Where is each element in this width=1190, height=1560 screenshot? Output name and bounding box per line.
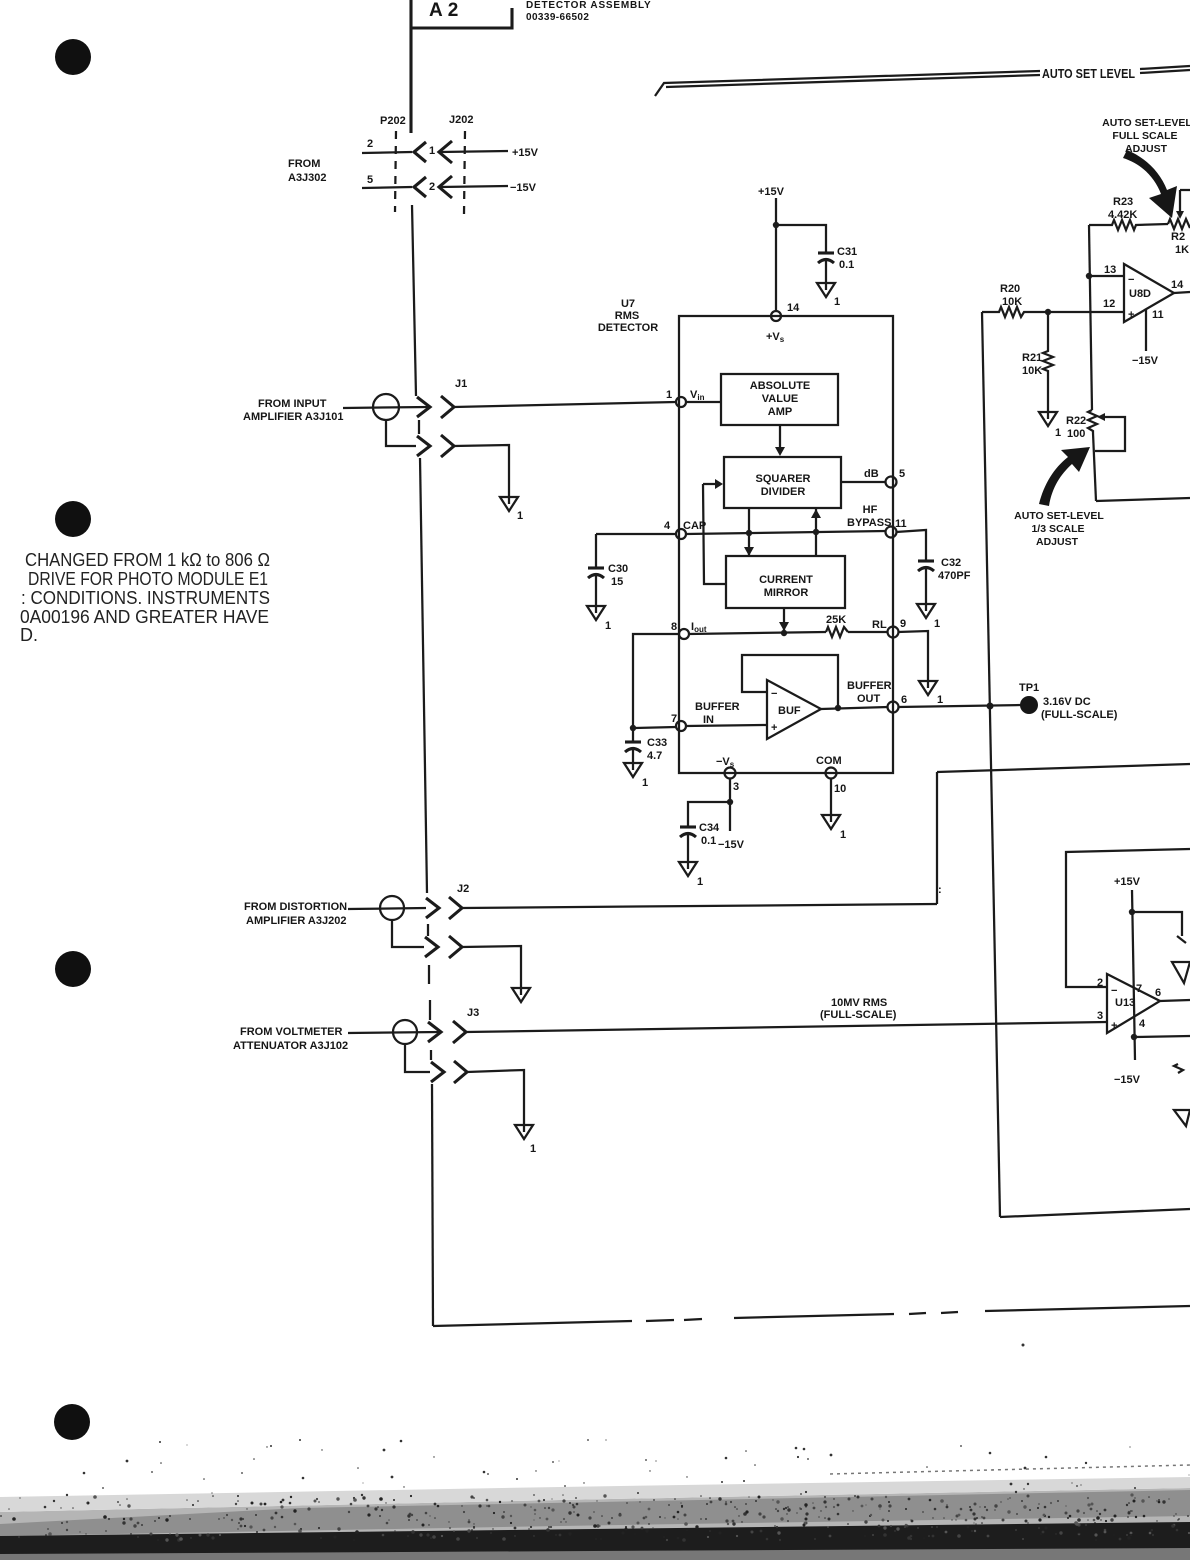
svg-text:OUT: OUT	[857, 693, 881, 705]
svg-text:+Vs: +Vs	[766, 331, 785, 344]
resistor 25K	[826, 627, 848, 637]
ground C31	[817, 283, 835, 297]
svg-text:00339-66502: 00339-66502	[526, 12, 589, 23]
capacitor C30	[588, 566, 604, 569]
R22 wiper loop	[1097, 413, 1105, 421]
connector pin arrow J3 row2	[431, 1062, 444, 1082]
wire iout bus	[689, 632, 826, 634]
punch hole dot 4	[54, 1404, 90, 1440]
svg-text:A3J302: A3J302	[288, 172, 327, 184]
wire +15V	[440, 151, 508, 152]
wire bottom right corner	[1000, 1209, 1190, 1217]
connector J202-2 arrow	[439, 176, 452, 198]
wire J2 shield tail	[392, 920, 424, 947]
svg-text:DETECTOR ASSEMBLY: DETECTOR ASSEMBLY	[526, 0, 651, 11]
J202 dashed mating line	[464, 131, 465, 214]
svg-text:C31: C31	[837, 246, 857, 258]
punch hole dot 3	[55, 951, 91, 987]
P202 dashed mating line	[395, 131, 396, 212]
svg-text:1: 1	[934, 618, 940, 630]
svg-text:6: 6	[901, 694, 907, 706]
svg-text:AMPLIFIER A3J202: AMPLIFIER A3J202	[246, 915, 346, 927]
punch hole dot 1	[55, 39, 91, 75]
wire J3 signal in	[348, 1032, 440, 1033]
svg-text:dB: dB	[864, 468, 879, 480]
svg-text:BYPASS: BYPASS	[847, 517, 891, 529]
svg-text:DIVIDER: DIVIDER	[761, 486, 806, 498]
svg-text:5: 5	[367, 174, 373, 186]
svg-text:3: 3	[733, 781, 739, 793]
ground C32	[917, 604, 935, 618]
connector J202-1 arrow	[439, 141, 452, 163]
svg-text:Vin: Vin	[690, 389, 705, 402]
wire R23 node vertical	[1089, 225, 1092, 410]
wire U8 output	[1174, 292, 1190, 293]
svg-text:CAP: CAP	[683, 520, 706, 532]
svg-text:1K: 1K	[1175, 244, 1189, 256]
svg-text:1: 1	[834, 296, 840, 308]
svg-text:470PF: 470PF	[938, 570, 971, 582]
IC U7 outline box	[679, 316, 893, 773]
wire J1 to U7 pin1	[454, 402, 676, 407]
wire 25K to RL	[848, 631, 888, 633]
svg-text:4: 4	[664, 520, 671, 532]
wire pin4 bus	[686, 531, 886, 534]
svg-text:(FULL-SCALE): (FULL-SCALE)	[820, 1009, 897, 1021]
svg-text:C33: C33	[647, 737, 667, 749]
svg-text:CURRENT: CURRENT	[759, 574, 813, 586]
wire dB to pin5	[841, 481, 886, 483]
svg-text:15: 15	[611, 576, 623, 588]
svg-text:+15V: +15V	[758, 186, 785, 198]
wire pin3 to -15V	[729, 778, 731, 831]
op-amp U13	[1107, 974, 1160, 1033]
connector pin arrow J2 row2	[425, 937, 438, 957]
svg-text:J2: J2	[457, 883, 469, 895]
svg-text:(FULL-SCALE): (FULL-SCALE)	[1041, 709, 1118, 721]
svg-text:6: 6	[1155, 987, 1161, 999]
ground COM	[822, 815, 840, 829]
wire pin6 to TP1	[898, 705, 1021, 707]
wire J1 shield to ground	[454, 445, 509, 497]
svg-text:VALUE: VALUE	[762, 393, 798, 405]
ground RL	[919, 681, 937, 695]
board boundary dashed vertical line	[412, 205, 416, 396]
svg-text:BUFFER: BUFFER	[847, 680, 892, 692]
svg-text:1: 1	[697, 876, 703, 888]
buffer feedback loop	[742, 655, 838, 707]
capacitor C32	[918, 559, 934, 562]
svg-text:1: 1	[530, 1143, 536, 1155]
board boundary dashed bottom line	[433, 1321, 632, 1326]
svg-text:FULL SCALE: FULL SCALE	[1112, 130, 1177, 142]
wire -15V	[440, 186, 508, 187]
wire J2 signal in	[348, 908, 426, 909]
svg-text:8: 8	[671, 621, 677, 633]
svg-text:COM: COM	[816, 755, 842, 767]
adjust arrow full scale	[1123, 150, 1177, 218]
connector pin arrow J1 row2	[417, 436, 430, 456]
svg-text:AUTO SET-LEVEL: AUTO SET-LEVEL	[1014, 510, 1104, 522]
svg-text:1: 1	[840, 829, 846, 841]
svg-text:Iout: Iout	[691, 621, 707, 634]
svg-text:D.: D.	[20, 625, 38, 645]
svg-text:1: 1	[605, 620, 611, 632]
svg-text:R21: R21	[1022, 352, 1042, 364]
svg-text:10K: 10K	[1022, 365, 1042, 377]
svg-text:1: 1	[937, 694, 943, 706]
svg-text::: :	[938, 884, 942, 896]
wire R22 to bottom	[1093, 433, 1096, 501]
svg-text:2: 2	[429, 181, 435, 193]
connector pin arrow J2 row1	[426, 898, 439, 918]
wire U13 pin7 branch	[1132, 912, 1182, 936]
svg-text:J1: J1	[455, 378, 467, 390]
ground J2 shield	[512, 988, 530, 1002]
svg-text:SQUARER: SQUARER	[755, 473, 810, 485]
svg-text:14: 14	[787, 302, 800, 314]
coax shield circle J1	[373, 394, 399, 420]
svg-text:0A00196 AND GREATER HAVE: 0A00196 AND GREATER HAVE	[20, 607, 269, 627]
junction feedback node	[987, 703, 994, 710]
op-amp U8D	[1124, 264, 1174, 322]
svg-text:10: 10	[834, 783, 846, 795]
wire C30 to ground	[595, 576, 597, 606]
connector J3 chevron row1	[453, 1021, 466, 1043]
U13 feedback wire	[1066, 849, 1190, 987]
coax shield circle J2	[380, 896, 404, 920]
svg-text:: CONDITIONS. INSTRUMENTS: : CONDITIONS. INSTRUMENTS	[21, 588, 270, 608]
svg-text:P202: P202	[380, 115, 406, 127]
svg-text:FROM DISTORTION: FROM DISTORTION	[244, 901, 347, 913]
resistor clipped right	[1174, 1064, 1183, 1073]
svg-text:−15V: −15V	[1114, 1074, 1141, 1086]
wire J3 shield to ground	[467, 1070, 524, 1125]
svg-text:RMS: RMS	[615, 310, 639, 322]
svg-text:−15V: −15V	[718, 839, 745, 851]
pin 5	[886, 477, 897, 488]
svg-text:10K: 10K	[1002, 296, 1022, 308]
adjust arrow 1/3 scale	[1039, 447, 1090, 506]
svg-text:CHANGED FROM 1 kΩ to 806 Ω: CHANGED FROM 1 kΩ to 806 Ω	[25, 550, 270, 570]
svg-text:ATTENUATOR A3J102: ATTENUATOR A3J102	[233, 1040, 348, 1052]
pin 6	[888, 702, 899, 713]
svg-text:RL: RL	[872, 619, 887, 631]
wire P202 pin1 left	[362, 152, 412, 153]
connector J1 chevron row1	[441, 396, 454, 418]
svg-text:J202: J202	[449, 114, 473, 126]
wire abs amp to squarer	[779, 425, 781, 448]
svg-text:C30: C30	[608, 563, 628, 575]
svg-text:0.1: 0.1	[839, 259, 854, 271]
svg-text:DRIVE FOR PHOTO MODULE E1: DRIVE FOR PHOTO MODULE E1	[28, 569, 268, 589]
svg-text:1: 1	[1055, 427, 1061, 439]
stray dot	[1022, 1344, 1025, 1347]
svg-text:IN: IN	[703, 714, 714, 726]
svg-text:−15V: −15V	[1132, 355, 1159, 367]
capacitor C31	[818, 251, 834, 254]
svg-text:FROM: FROM	[288, 158, 320, 170]
wire current mirror to iout	[783, 608, 785, 631]
svg-text:0.1: 0.1	[701, 835, 716, 847]
svg-text:AMPLIFIER A3J101: AMPLIFIER A3J101	[243, 411, 343, 423]
ground clipped right 2	[1174, 1110, 1190, 1126]
connector pin P202-1 chevron	[414, 142, 426, 162]
svg-text:J3: J3	[467, 1007, 479, 1019]
svg-text:1: 1	[429, 145, 435, 157]
wire buf out	[821, 707, 888, 709]
wire J2 route right	[937, 764, 1190, 772]
capacitor C33	[625, 740, 641, 743]
svg-text:ADJUST: ADJUST	[1036, 536, 1079, 548]
svg-text:FROM INPUT: FROM INPUT	[258, 398, 327, 410]
svg-text:3.16V DC: 3.16V DC	[1043, 696, 1091, 708]
svg-text:−: −	[1111, 985, 1117, 997]
svg-text:4: 4	[1139, 1018, 1146, 1030]
ground R21	[1039, 412, 1057, 426]
svg-text:HF: HF	[863, 504, 878, 516]
wire pin10 to ground	[830, 778, 832, 815]
svg-text:C34: C34	[699, 822, 720, 834]
AUTO SET LEVEL header rule	[655, 71, 1040, 96]
svg-text:BUF: BUF	[778, 705, 801, 717]
ground C34	[679, 862, 697, 876]
svg-text:ABSOLUTE: ABSOLUTE	[750, 380, 811, 392]
svg-text:+: +	[1111, 1020, 1117, 1032]
wire R20 to U8 pin12	[1048, 311, 1124, 313]
wire J1 shield tail	[386, 420, 416, 446]
svg-text:−15V: −15V	[510, 182, 537, 194]
svg-text:10MV RMS: 10MV RMS	[831, 997, 887, 1009]
svg-text:R2: R2	[1171, 231, 1185, 243]
wire C34 branch	[688, 802, 730, 826]
connector pin arrow J1 row1	[417, 397, 430, 417]
ground J3 shield	[515, 1125, 533, 1139]
svg-text:1: 1	[666, 389, 672, 401]
svg-text:9: 9	[900, 618, 906, 630]
wire U13 pin4 branch	[1134, 1036, 1190, 1037]
punch hole dot 2	[55, 501, 91, 537]
svg-text:+15V: +15V	[512, 147, 539, 159]
wire C32 branch	[896, 530, 926, 560]
svg-text:4.7: 4.7	[647, 750, 662, 762]
wire C32 to ground	[925, 569, 927, 604]
wire C31 branch	[776, 225, 826, 252]
connector J1 chevron row2	[441, 435, 454, 457]
wire iout left loop	[633, 634, 679, 728]
svg-text:AUTO SET LEVEL: AUTO SET LEVEL	[1042, 67, 1135, 81]
wire J2 route up	[936, 772, 938, 904]
wire J3 shield tail	[405, 1044, 430, 1072]
svg-text:R20: R20	[1000, 283, 1020, 295]
svg-text:25K: 25K	[826, 614, 846, 626]
ground clipped right 1	[1177, 936, 1186, 943]
svg-text:5: 5	[899, 468, 905, 480]
svg-text:U7: U7	[621, 298, 635, 310]
svg-text:+: +	[1128, 309, 1134, 321]
wire squarer to current mirror	[748, 508, 750, 556]
svg-text:3: 3	[1097, 1010, 1103, 1022]
svg-text:11: 11	[1152, 309, 1164, 321]
junction C31 tap	[773, 222, 779, 228]
block squarer divider	[724, 457, 841, 508]
svg-text:AUTO SET-LEVEL: AUTO SET-LEVEL	[1102, 117, 1190, 129]
wire C31 to ground	[825, 261, 827, 283]
svg-text:−: −	[771, 688, 777, 700]
svg-text:+15V: +15V	[1114, 876, 1141, 888]
wire C34 to ground	[687, 835, 689, 862]
wire U8 pin13	[1089, 275, 1124, 277]
wire J2 to auto set level	[462, 904, 937, 908]
wire R20 node vertical	[982, 312, 1000, 1217]
svg-text:14: 14	[1171, 279, 1184, 291]
svg-text:100: 100	[1067, 428, 1085, 440]
svg-text:DETECTOR: DETECTOR	[598, 322, 658, 334]
wire J2 shield to ground	[462, 946, 521, 988]
connector pin arrow J3 row1	[428, 1022, 441, 1042]
connector pin P202-2 chevron	[414, 177, 426, 197]
wire U13 supply vertical	[1132, 890, 1135, 1060]
svg-text:13: 13	[1104, 264, 1116, 276]
wire squarer feed arrow	[703, 483, 716, 485]
svg-text:11: 11	[895, 518, 907, 530]
op-amp BUF	[767, 680, 821, 739]
block current mirror	[726, 556, 845, 608]
wire J3 to U13	[466, 1022, 1107, 1032]
svg-text:1: 1	[517, 510, 523, 522]
wire auto set level bottom	[1096, 498, 1190, 501]
svg-text:7: 7	[1136, 983, 1142, 995]
svg-text:TP1: TP1	[1019, 682, 1039, 694]
svg-text:U13: U13	[1115, 997, 1135, 1009]
svg-text:2: 2	[367, 138, 373, 150]
wire +15V to pin14	[775, 198, 777, 311]
capacitor C34	[680, 825, 696, 828]
wire C33 branch	[632, 728, 634, 741]
ground C30	[587, 606, 605, 620]
wire C30 branch	[596, 533, 676, 535]
ground C33	[624, 763, 642, 777]
wire J1 signal in	[343, 407, 429, 408]
svg-text:U8D: U8D	[1129, 288, 1151, 300]
svg-text:A2: A2	[429, 0, 463, 21]
wire pin1 to abs amp	[686, 401, 721, 403]
coax shield circle J3	[393, 1020, 417, 1044]
wire U13 output	[1160, 1000, 1190, 1001]
svg-text:FROM VOLTMETER: FROM VOLTMETER	[240, 1026, 343, 1038]
svg-text:2: 2	[1097, 977, 1103, 989]
wire P202 pin2 left	[362, 187, 412, 188]
svg-text:+: +	[771, 722, 777, 734]
scan noise band	[0, 1439, 1190, 1560]
wire pin7 to buf plus	[686, 725, 767, 726]
connector J2 chevron row1	[449, 897, 462, 919]
svg-text:R23: R23	[1113, 196, 1133, 208]
svg-text:1: 1	[642, 777, 648, 789]
trimmer R24 (clipped)	[1168, 219, 1190, 229]
svg-text:1/3 SCALE: 1/3 SCALE	[1031, 523, 1084, 535]
block absolute value amp	[721, 374, 838, 425]
svg-text:R22: R22	[1066, 415, 1086, 427]
svg-text:12: 12	[1103, 298, 1115, 310]
svg-text:C32: C32	[941, 557, 961, 569]
svg-text:MIRROR: MIRROR	[764, 587, 809, 599]
svg-text:AMP: AMP	[768, 406, 792, 418]
wire RL to ground	[898, 631, 928, 681]
ground J1 shield	[500, 497, 518, 511]
wire C33 to ground	[632, 750, 634, 763]
wire current mirror to squarer	[815, 508, 817, 556]
svg-text:−: −	[1128, 274, 1134, 286]
connector J3 chevron row2	[454, 1061, 467, 1083]
svg-text:BUFFER: BUFFER	[695, 701, 740, 713]
connector J2 chevron row2	[449, 936, 462, 958]
assembly bracket A2	[409, 0, 412, 133]
